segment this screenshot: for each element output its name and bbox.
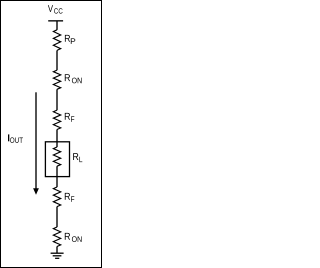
- node VCC label: [48, 5, 63, 14]
- wire RP to RON1: [56, 50, 58, 70]
- resistor RL: [53, 147, 60, 166]
- resistor RON lower: [53, 227, 60, 247]
- current arrow IOUT head: [33, 188, 39, 195]
- resistor RON upper: [53, 70, 60, 89]
- wire RON2 to ground: [56, 247, 58, 254]
- ground: [51, 253, 64, 258]
- border frame: [1, 1, 102, 268]
- wire RF1 to RL box: [56, 130, 58, 143]
- resistor RF upper: [53, 110, 60, 129]
- wire RF2 to RON2: [56, 207, 58, 228]
- resistor RP: [53, 30, 60, 51]
- label RL: [73, 153, 82, 162]
- label IOUT: [8, 134, 23, 143]
- wire from VCC bar to RP: [56, 21, 58, 30]
- resistor RF lower: [53, 187, 60, 207]
- current arrow IOUT shaft: [35, 92, 37, 189]
- label RP: [65, 35, 75, 44]
- label RON lower: [65, 233, 82, 242]
- wire RL box to RF2: [56, 177, 58, 188]
- wire into RL resistor: [56, 142, 58, 147]
- wire RL resistor to box bottom: [56, 166, 58, 176]
- power rail VCC bar: [48, 20, 63, 22]
- wire RON1 to RF1: [56, 89, 58, 110]
- label RF lower: [65, 193, 75, 202]
- label RON upper: [65, 74, 82, 83]
- load box RL: [45, 142, 69, 177]
- label RF upper: [65, 113, 75, 122]
